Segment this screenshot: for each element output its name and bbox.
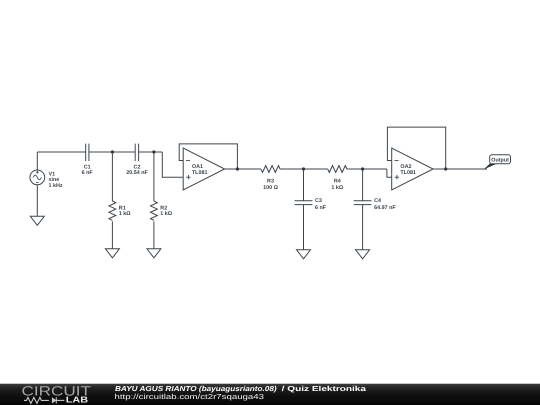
wire R1 to ground xyxy=(111,221,113,248)
node A (C1/R1 junction) xyxy=(111,150,114,153)
svg-text:20.54 nF: 20.54 nF xyxy=(126,170,148,176)
svg-text:C4: C4 xyxy=(374,198,381,204)
wire OA1 output xyxy=(225,168,261,170)
wire R4 to OA2 xyxy=(347,168,387,170)
ground (C4) xyxy=(356,250,370,259)
OA1 label xyxy=(192,164,208,176)
svg-text:R3: R3 xyxy=(267,178,274,184)
node OA2 output junction xyxy=(444,167,447,170)
svg-text:Output: Output xyxy=(491,157,509,163)
resistor R3 xyxy=(261,166,280,173)
R3 label xyxy=(263,178,278,191)
svg-text:LAB: LAB xyxy=(66,395,88,405)
svg-text:1 kΩ: 1 kΩ xyxy=(160,211,172,217)
wire node C down to C3 xyxy=(303,169,305,201)
svg-text:100 Ω: 100 Ω xyxy=(263,185,278,191)
output flag tail xyxy=(484,164,498,170)
R4 label xyxy=(331,178,343,191)
wire V1 bottom xyxy=(36,185,38,217)
C4 label xyxy=(374,198,396,211)
wire C4 to ground xyxy=(362,205,364,250)
wire R2 to ground xyxy=(153,221,155,248)
wire node B down to R2 xyxy=(153,152,155,201)
R1 label xyxy=(119,206,131,218)
wire bend down to OA1 + input xyxy=(162,152,183,177)
wire node A down to R1 xyxy=(111,152,113,201)
node C (R3/C3 junction) xyxy=(302,167,305,170)
wire C2 to bend xyxy=(139,151,163,153)
svg-text:TL081: TL081 xyxy=(192,170,208,176)
capacitor C4 xyxy=(354,201,372,205)
svg-text:R4: R4 xyxy=(334,178,341,184)
V1 label xyxy=(49,172,63,189)
wire OA2 output xyxy=(433,168,487,170)
wire C1 to C2 xyxy=(89,151,135,153)
svg-text:1 kHz: 1 kHz xyxy=(49,183,63,189)
C1 label xyxy=(82,165,94,177)
wire V1 top xyxy=(36,152,38,170)
svg-text:TL081: TL081 xyxy=(400,170,416,176)
svg-text:1 kΩ: 1 kΩ xyxy=(119,211,131,217)
wire C3 to ground xyxy=(303,205,305,250)
op-amp OA2 xyxy=(392,148,433,190)
wire OA2 feedback loop xyxy=(387,127,445,169)
svg-text:1 kΩ: 1 kΩ xyxy=(331,185,343,191)
OA2 label xyxy=(400,164,416,176)
svg-text:C3: C3 xyxy=(315,198,322,204)
C2 label xyxy=(126,165,148,177)
op-amp OA1 xyxy=(183,148,224,190)
wire OA1 feedback loop xyxy=(179,144,237,169)
resistor R1 xyxy=(109,201,116,220)
node OA1 output junction xyxy=(236,167,239,170)
capacitor C1 xyxy=(86,144,89,162)
C3 label xyxy=(315,198,327,211)
svg-text:6 nF: 6 nF xyxy=(82,170,94,176)
svg-text:64.97 nF: 64.97 nF xyxy=(374,205,396,211)
R2 label xyxy=(160,206,172,218)
node D (R4/C4 junction) xyxy=(361,167,364,170)
ground (C3) xyxy=(297,250,311,259)
svg-text:http://circuitlab.com/ct2r7sqa: http://circuitlab.com/ct2r7sqauga43 xyxy=(115,392,265,401)
ground (V1) xyxy=(30,216,44,225)
wire jog to OA2 + input xyxy=(387,169,392,177)
CircuitLab logo diode xyxy=(52,397,65,403)
resistor R2 xyxy=(150,201,157,220)
voltage source V1 xyxy=(30,170,45,185)
output flag Output xyxy=(490,155,511,164)
ground (R1) xyxy=(105,249,119,258)
CircuitLab logo resistor zigzag xyxy=(24,397,49,403)
wire top rail V1 to C1 xyxy=(37,151,85,153)
capacitor C2 xyxy=(135,144,138,162)
wire R3 to R4 xyxy=(280,168,328,170)
capacitor C3 xyxy=(295,201,313,205)
svg-text:6 nF: 6 nF xyxy=(315,205,327,211)
wire node D down to C4 xyxy=(362,169,364,201)
ground (R2) xyxy=(147,249,161,258)
svg-text:/ Quiz Elektronika: / Quiz Elektronika xyxy=(282,384,368,393)
node B (C2/R2 junction) xyxy=(152,150,155,153)
resistor R4 xyxy=(328,166,347,173)
